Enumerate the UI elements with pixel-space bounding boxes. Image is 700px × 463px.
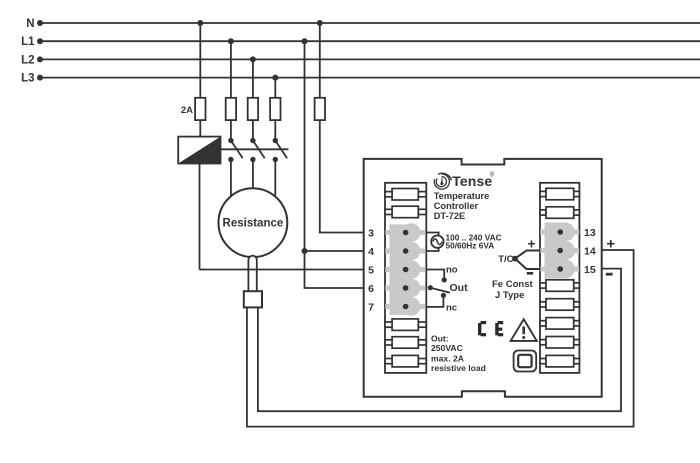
wire N to fuse F1: [199, 23, 201, 98]
junction L1 tap: [302, 38, 308, 44]
fuse F5: [315, 98, 325, 120]
wire tap to terminal 4: [305, 250, 364, 252]
svg-text:+: +: [606, 236, 615, 253]
contact K1.3: [273, 138, 288, 162]
relay contact nc dot: [441, 293, 446, 298]
svg-text:Fe Const: Fe Const: [492, 279, 533, 290]
svg-text:3: 3: [368, 228, 374, 240]
relay common dot: [428, 285, 433, 290]
resistor heater R1: [219, 188, 288, 257]
svg-text:max. 2A: max. 2A: [431, 353, 464, 363]
svg-text:Resistance: Resistance: [223, 218, 284, 230]
junction L1 to fuse F2: [228, 38, 234, 44]
label minus outside: [606, 273, 613, 276]
svg-text:4: 4: [368, 246, 374, 258]
svg-text:DT-72E: DT-72E: [434, 211, 466, 221]
junction N to fuse F1: [197, 20, 203, 26]
logo Tense icon: [434, 173, 451, 189]
wire K1 coil to terminal 5: [200, 269, 364, 271]
wire F2 to contact K1.1: [230, 120, 232, 140]
junction L2 to fuse F3: [250, 56, 256, 62]
thermocouple junction dot: [512, 256, 518, 262]
svg-text:6: 6: [368, 283, 374, 295]
wire L3 to fuse F4: [274, 78, 276, 98]
svg-text:7: 7: [368, 302, 374, 314]
svg-text:Controller: Controller: [434, 201, 479, 211]
terminal strip left live block (terminals 3-7): [385, 223, 425, 315]
AC supply symbol: [431, 236, 443, 248]
wire K1 coil down: [199, 164, 201, 270]
junction terminal 4 tap: [302, 248, 308, 254]
svg-text:N: N: [26, 18, 34, 30]
button symbol: [514, 351, 537, 372]
contact K1.2: [250, 138, 265, 162]
svg-text:13: 13: [584, 227, 596, 239]
wire K1.2 to heater: [252, 160, 254, 189]
relay blade: [430, 288, 450, 293]
wire F4 to contact K1.3: [274, 120, 276, 140]
relay contact no dot: [442, 277, 447, 282]
wire N to fuse F5: [319, 23, 321, 98]
svg-text:T/C: T/C: [498, 254, 513, 265]
fuse F1: [195, 98, 205, 120]
svg-text:Temperature: Temperature: [434, 191, 490, 201]
fuse F2: [226, 98, 236, 120]
net L1 bus line: [37, 38, 700, 44]
svg-text:®: ®: [490, 172, 495, 179]
warning symbol triangle: [511, 319, 537, 341]
controller U1 DT-72E outline: [364, 159, 602, 397]
thermocouple minus lead: [515, 259, 540, 269]
terminal 6 contact dot: [403, 285, 409, 291]
terminal strip right outline: [540, 183, 579, 373]
svg-text:Out:: Out:: [431, 334, 449, 344]
AC supply bracket: [426, 233, 438, 252]
svg-text:Tense: Tense: [452, 173, 492, 189]
svg-text:14: 14: [584, 246, 596, 258]
thermocouple probe TC1 connector: [244, 291, 262, 307]
thermocouple probe TC1 sheath: [248, 256, 256, 291]
terminal 14 contact dot: [557, 248, 563, 254]
wire TC1 plus to terminal 14: [247, 250, 634, 427]
wire F1 to contactor coil K1: [199, 120, 201, 137]
terminal 7 contact dot: [403, 304, 409, 310]
svg-text:L1: L1: [21, 36, 35, 48]
net N bus line: [37, 20, 700, 26]
svg-text:Out: Out: [450, 282, 469, 294]
wire K1.3 to heater: [274, 160, 276, 197]
svg-text:5: 5: [368, 265, 374, 277]
terminal 5 contact dot: [403, 267, 409, 273]
wire L2 to fuse F3: [252, 59, 254, 97]
fuse F3: [248, 98, 258, 120]
contact K1.1: [228, 138, 243, 162]
wire L1 to terminal 6: [305, 41, 364, 288]
contactor linkage: [221, 148, 289, 150]
thermocouple plus lead: [515, 251, 540, 259]
svg-text:resistive load: resistive load: [431, 363, 486, 373]
label minus inside: [527, 272, 533, 275]
terminal strip left outline: [385, 183, 426, 373]
relay contact nc wire: [426, 295, 443, 307]
wire K1.1 to heater: [230, 160, 232, 197]
svg-text:L2: L2: [21, 54, 34, 66]
svg-text:250VAC: 250VAC: [431, 343, 463, 353]
svg-text:15: 15: [584, 264, 596, 276]
svg-text:L3: L3: [21, 73, 34, 85]
svg-text:no: no: [446, 265, 458, 276]
net L2 bus line: [37, 56, 700, 62]
contactor coil K1: [178, 137, 220, 164]
net L3 bus line: [37, 75, 700, 81]
terminal strip right blank cells: [540, 188, 579, 367]
terminal strip right live block (terminals 13-15): [540, 223, 579, 279]
svg-text:J Type: J Type: [495, 290, 524, 301]
CE mark: [478, 321, 503, 336]
svg-text:+: +: [527, 235, 535, 251]
junction N to fuse F5: [317, 20, 323, 26]
terminal 13 contact dot: [557, 229, 563, 235]
svg-text:2A: 2A: [181, 105, 193, 116]
terminal 4 contact dot: [403, 248, 409, 254]
relay contact no wire: [426, 270, 444, 278]
terminal 3 contact dot: [403, 230, 409, 236]
svg-text:50/60Hz 6VA: 50/60Hz 6VA: [446, 241, 495, 251]
wire F5 to terminal 3: [320, 120, 364, 232]
fuse F4: [270, 98, 280, 120]
svg-text:nc: nc: [446, 302, 457, 313]
junction L3 to fuse F4: [272, 75, 278, 81]
wire L1 to fuse F2: [230, 41, 232, 98]
terminal strip left blank cells: [385, 189, 426, 367]
wire F3 to contact K1.2: [252, 120, 254, 140]
terminal 15 contact dot: [557, 266, 563, 272]
wire TC1 minus to terminal 15: [258, 269, 621, 412]
